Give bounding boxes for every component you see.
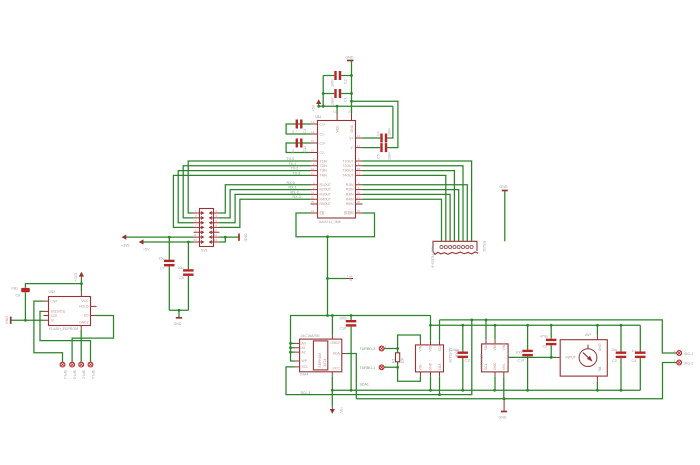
wire ADC2 VIN- to gnd [503, 376, 505, 399]
wire FB bottom [24, 292, 26, 320]
svg-text:U$2: U$2 [49, 290, 56, 294]
svg-text:T3OUT: T3OUT [342, 169, 353, 173]
svg-text:C8: C8 [179, 276, 184, 280]
junction (290.5,352.1) [289, 351, 292, 354]
svg-text:HOLD: HOLD [79, 305, 89, 309]
svg-text:14: 14 [311, 130, 315, 134]
svg-text:C4: C4 [377, 131, 381, 136]
svg-text:VCC: VCC [336, 125, 340, 133]
svg-text:100n: 100n [339, 316, 347, 320]
svg-text:T2OUT: T2OUT [342, 164, 353, 168]
svg-text:C1-: C1- [320, 132, 325, 136]
wire C2 pump loop [286, 143, 310, 153]
pins U1 stubs [311, 114, 363, 214]
svg-text:21: 21 [311, 191, 315, 195]
junction (551.2,325.3) [550, 324, 553, 327]
capacitor C7 [159, 237, 175, 310]
junction (551.2,357.4) [550, 356, 553, 359]
svg-text:AMPTE103-8: AMPTE103-8 [431, 246, 435, 268]
svg-text:15u: 15u [159, 257, 165, 261]
svg-text:INPUT: INPUT [566, 356, 576, 360]
wire meter bottom [596, 381, 598, 390]
wire VCC bottom pin [331, 376, 333, 390]
pad SPI-4 [60, 362, 67, 379]
junction (504.1,398.8) [503, 397, 506, 400]
svg-text:C1: C1 [344, 97, 348, 102]
svg-text:U$1: U$1 [315, 115, 322, 119]
svg-text:C14: C14 [518, 358, 525, 362]
node TURBO-1 pad [360, 363, 388, 370]
svg-text:GND: GND [500, 185, 508, 189]
supply +5V arrow (MAX211) [312, 99, 322, 111]
svg-text:12: 12 [357, 134, 361, 138]
wire line2 SCL-1 [286, 320, 472, 395]
junction (430.5,390.3) [429, 389, 432, 392]
wire SV1 GND [220, 236, 239, 238]
wire ADC1 SDA bottom [439, 376, 441, 394]
svg-text:T4OUT: T4OUT [342, 174, 353, 178]
svg-text:VCC: VCC [333, 366, 341, 370]
wire GND2 top pin [331, 316, 333, 335]
svg-text:+3V3: +3V3 [121, 244, 130, 248]
pad SPI-3 [70, 362, 77, 379]
svg-text:GND: GND [5, 316, 9, 324]
svg-text:V-: V- [350, 146, 353, 150]
svg-text:SHDN: SHDN [344, 211, 354, 215]
svg-text:R4IN: R4IN [346, 197, 354, 201]
svg-text:24A4: 24A4 [300, 373, 308, 377]
capacitor C8 [178, 242, 194, 310]
svg-text:C7: C7 [160, 267, 165, 271]
svg-text:GND: GND [244, 234, 248, 242]
junction (169.3,237.1) [168, 236, 171, 239]
junction (430.5,325.3) [429, 324, 432, 327]
svg-text:GND: GND [428, 362, 432, 370]
wire +3V3 net [124, 236, 193, 238]
junction (323.2,93.5) [322, 92, 325, 95]
svg-text:AV+: AV+ [585, 333, 592, 337]
pins U$4 stubs [295, 335, 347, 377]
wire +3V3 to VCC [80, 279, 82, 292]
wire RX-3 [220, 199, 311, 227]
svg-text:C9: C9 [543, 345, 548, 349]
junction (351.1,315.5) [350, 314, 353, 317]
junction (439.5,394.6) [438, 393, 441, 396]
wire ADC2 SDA top [485, 320, 487, 339]
junction (337.1,106.2) [336, 105, 339, 108]
svg-text:GND: GND [597, 344, 601, 352]
wire ADC2 VDD top [494, 325, 496, 339]
svg-text:C11: C11 [465, 359, 471, 363]
node TX labels [287, 157, 301, 199]
svg-text:C2-: C2- [320, 151, 325, 155]
svg-text:10: 10 [311, 167, 315, 171]
svg-text:SPI-1: SPI-1 [91, 370, 95, 379]
svg-text:R4OUT: R4OUT [320, 197, 332, 201]
svg-text:470p: 470p [540, 335, 548, 339]
wire TX-3 [173, 175, 310, 227]
svg-text:10: 10 [214, 228, 218, 232]
svg-text:SI: SI [51, 319, 54, 323]
svg-text:SDA1: SDA1 [360, 383, 369, 387]
wire R3IN [363, 194, 451, 241]
svg-text:VDD: VDD [428, 344, 432, 352]
svg-text:VDD: VDD [493, 343, 497, 351]
junction (188.4,242) [187, 241, 190, 244]
wire R2IN [363, 190, 459, 242]
svg-text:SIG-2: SIG-2 [684, 361, 693, 365]
svg-text:FB1: FB1 [12, 287, 19, 291]
junction (290.5,347.7) [289, 346, 292, 349]
wire SO(right) to pad [72, 316, 113, 362]
wire FB top [25, 284, 81, 288]
svg-text:C5: C5 [377, 154, 381, 159]
wire T3OUT [363, 171, 455, 242]
IC U$6 ADS1100 body [479, 343, 508, 372]
wire line3 gnd net [356, 363, 676, 399]
wire T4OUT [363, 175, 446, 241]
svg-text:11: 11 [194, 233, 197, 237]
svg-text:100n: 100n [516, 350, 524, 354]
junction (81.4,283.6) [80, 282, 83, 285]
junction (225.3,237.1) [224, 236, 227, 239]
junction (486,319.9) [485, 319, 488, 322]
wire C4 loop [387, 106, 393, 138]
svg-text:VCC: VCC [81, 299, 89, 303]
svg-text:VIN+: VIN+ [502, 343, 506, 351]
supply +5V arrow (left) [139, 239, 150, 251]
node C2 right junction [350, 74, 353, 77]
svg-text:C2: C2 [344, 79, 348, 84]
wire SO to pad [40, 311, 91, 362]
svg-text:CS#: CS# [51, 299, 58, 303]
ground GND (right of SV1) [239, 234, 248, 242]
wire TX-0 [188, 161, 310, 213]
wire ADC2 GND bottom [494, 376, 496, 390]
junction (179,310.3) [178, 309, 181, 312]
capacitor C3 [611, 325, 626, 390]
svg-text:SO(SIO1): SO(SIO1) [51, 310, 66, 314]
svg-text:25: 25 [311, 200, 315, 204]
wire rail B [440, 320, 677, 353]
svg-text:GND: GND [174, 322, 182, 326]
pad SPI-1 [88, 362, 95, 379]
wire TX-2 [178, 171, 310, 223]
connector X1 RS232 cable [431, 241, 487, 268]
wire SDA pin to line3 [346, 354, 356, 399]
svg-text:100n: 100n [388, 128, 392, 136]
wire VIN+ input [508, 356, 556, 358]
svg-text:C3: C3 [612, 359, 617, 363]
svg-text:26: 26 [357, 191, 361, 195]
wire T1OUT [363, 161, 472, 241]
svg-text:10u: 10u [178, 266, 184, 270]
svg-text:GND: GND [499, 416, 507, 420]
wire RX-1 [220, 190, 311, 218]
svg-text:C12: C12 [303, 146, 307, 153]
junction (397.6,348.5) [396, 347, 399, 350]
svg-text:20: 20 [348, 110, 352, 114]
svg-text:WP: WP [302, 359, 308, 363]
wire TX-1 [183, 166, 310, 218]
wire C5 loop [352, 101, 398, 147]
ground GND (top supply) [346, 56, 354, 61]
ground GND (floating label right) [500, 185, 508, 241]
junction (527.6,390.3) [526, 389, 529, 392]
wire RX-0 [220, 185, 311, 213]
svg-text:ADS1100: ADS1100 [479, 354, 483, 369]
svg-text:T2IN: T2IN [320, 164, 328, 168]
svg-text:SCL: SCL [484, 363, 488, 370]
junction (471.8,319.9) [470, 319, 473, 322]
wire rail A [291, 316, 431, 362]
wire GND2 to pad [80, 330, 82, 362]
capacitor C1 [323, 89, 351, 105]
junction (332.3,390.3) [331, 389, 334, 392]
wire R1IN [363, 185, 468, 242]
wire ADC1 VDD [430, 316, 432, 341]
IC U$2 FLASH_EEPROM body [49, 290, 91, 331]
junction (621,390.3) [620, 389, 623, 392]
wire VCC pin drop [336, 106, 338, 113]
capacitor C9 470p [540, 325, 556, 357]
svg-text:A1: A1 [302, 346, 306, 350]
svg-text:11: 11 [311, 172, 314, 176]
svg-text:27: 27 [357, 195, 361, 199]
svg-text:GND2: GND2 [330, 341, 340, 345]
svg-text:22: 22 [311, 195, 315, 199]
svg-text:V+: V+ [349, 136, 353, 140]
svg-text:SPI-3: SPI-3 [73, 370, 77, 379]
ground GND (bottom) [499, 399, 508, 420]
svg-text:R1: R1 [392, 358, 396, 363]
node SIG-1 pad [674, 349, 693, 356]
svg-text:10k: 10k [401, 358, 405, 364]
svg-text:TURBO-2: TURBO-2 [360, 347, 376, 351]
junction (290.5,343.4) [289, 342, 292, 345]
junction (25.4,320.3) [24, 319, 27, 322]
svg-text:SV1: SV1 [201, 249, 208, 253]
svg-text:R1IN: R1IN [346, 183, 354, 187]
svg-text:TURBO-1: TURBO-1 [360, 366, 376, 370]
wire TURBO-2 net [384, 335, 420, 349]
capacitor C3 (C1+/C1-) [291, 120, 307, 135]
svg-text:R5IN: R5IN [346, 202, 354, 206]
svg-text:1u: 1u [632, 349, 636, 353]
svg-text:12: 12 [214, 233, 218, 237]
svg-text:R2IN: R2IN [346, 188, 354, 192]
supply +5V arrow (down) [330, 390, 343, 414]
svg-text:GND2: GND2 [79, 321, 89, 325]
svg-text:SCL-1: SCL-1 [301, 391, 311, 395]
svg-text:R2OUT: R2OUT [320, 188, 332, 192]
svg-text:24: 24 [311, 209, 315, 213]
wire rail C [431, 324, 641, 326]
junction (332.4,315.5) [331, 314, 334, 317]
svg-text:SIG-1: SIG-1 [684, 352, 693, 356]
capacitor C11 [451, 325, 471, 390]
svg-text:SDA: SDA [438, 363, 442, 371]
junction (597.4,325.3) [596, 324, 599, 327]
junction (597.4,390.3) [596, 389, 599, 392]
svg-text:+3V3: +3V3 [74, 273, 78, 282]
svg-text:EEPROM: EEPROM [318, 353, 322, 368]
op-amp U1 MAX211 IC body [315, 115, 356, 224]
svg-text:13: 13 [311, 120, 315, 124]
pad SPI-2 [79, 362, 86, 379]
node TURBO-2 pad [360, 345, 388, 352]
IC U$5 ADS1100 body [416, 344, 459, 372]
node C5 loop junction [350, 100, 353, 103]
ground GND (flash left) [5, 316, 11, 324]
wire EN/SHDN tie [296, 213, 375, 237]
resistor R1 [392, 349, 405, 368]
svg-text:SPI-4: SPI-4 [63, 370, 67, 379]
wire +5V net [142, 241, 194, 243]
capacitor C14 [516, 325, 533, 390]
svg-text:FLASH_EEPROM: FLASH_EEPROM [49, 327, 78, 331]
svg-text:17: 17 [357, 144, 361, 148]
svg-text:RE: RE [597, 367, 601, 372]
junction (494.6,390.3) [493, 389, 496, 392]
svg-text:A2: A2 [302, 350, 306, 354]
svg-text:SDA: SDA [333, 352, 341, 356]
svg-text:EN: EN [320, 211, 325, 215]
svg-text:C3: C3 [303, 129, 307, 134]
junction (462.8,390.3) [461, 389, 464, 392]
svg-text:C10: C10 [340, 326, 347, 330]
svg-text:SPI-2: SPI-2 [82, 370, 86, 379]
svg-text:+5V: +5V [143, 248, 150, 252]
wire RX-2 [220, 194, 311, 222]
svg-text:GND: GND [493, 362, 497, 370]
svg-text:SCL: SCL [302, 365, 309, 369]
capacitor C5 [363, 143, 392, 160]
ground GND (below C7/C8) [174, 318, 183, 326]
svg-text:1u: 1u [291, 131, 295, 135]
node JP junction [326, 277, 329, 280]
wire cap chain left vertical [322, 76, 324, 107]
IC U$4 24C16 body [300, 334, 342, 377]
pins U$2 stubs [44, 292, 97, 330]
pins M1 stubs [596, 335, 598, 382]
svg-text:GND: GND [346, 56, 354, 60]
pins SV1 [194, 209, 220, 243]
svg-text:13: 13 [194, 238, 198, 242]
svg-text:R1OUT: R1OUT [320, 183, 332, 187]
svg-text:+5V: +5V [312, 104, 316, 111]
svg-text:VIN+: VIN+ [419, 344, 423, 352]
svg-text:18: 18 [357, 167, 361, 171]
meter M1 body [556, 333, 607, 386]
svg-text:R3IN: R3IN [346, 193, 354, 197]
svg-text:MAX211_JM6: MAX211_JM6 [319, 220, 341, 224]
svg-text:23: 23 [357, 209, 361, 213]
wire line1 SDA-1 [332, 389, 640, 391]
wire meter top [596, 325, 598, 334]
svg-text:R3OUT: R3OUT [320, 193, 332, 197]
pins U$5 stubs [420, 340, 439, 376]
svg-text:100n: 100n [331, 97, 335, 105]
wire R4IN [363, 199, 442, 241]
svg-text:19: 19 [357, 172, 361, 176]
svg-text:T1OUT: T1OUT [342, 159, 353, 163]
svg-text:JP1: JP1 [349, 275, 353, 281]
svg-text:C1+: C1+ [320, 122, 326, 126]
svg-text:10n: 10n [611, 348, 617, 352]
junction (527.6,325.3) [526, 324, 529, 327]
node C1 right junction [350, 92, 353, 95]
connector SV1 body [200, 209, 214, 253]
wire GND vertical [351, 61, 353, 114]
svg-text:VIN-: VIN- [419, 364, 423, 371]
inductor FB1 [12, 287, 30, 298]
junction (621,325.3) [620, 324, 623, 327]
svg-text:14: 14 [214, 238, 218, 242]
wire CS# to pad SPI-4 [34, 301, 63, 362]
svg-text:SO: SO [84, 314, 89, 318]
junction (323.2,106.2) [322, 105, 325, 108]
wire C1 pump loop [286, 124, 310, 134]
svg-text:100n: 100n [331, 79, 335, 87]
node EN junction [326, 235, 329, 238]
svg-text:SCL: SCL [438, 345, 442, 352]
wire TURBO-1 net [384, 367, 420, 381]
svg-text:100n: 100n [388, 152, 392, 160]
wire +5V rail [319, 105, 393, 107]
junction (495,325.3) [494, 324, 497, 327]
svg-text:+5V: +5V [339, 407, 343, 414]
wire ADC1 GND bottom [430, 376, 432, 390]
node SIG-2 pad [674, 359, 693, 366]
svg-text:R5OUT: R5OUT [320, 202, 332, 206]
svg-text:RS232: RS232 [482, 241, 486, 252]
junction (462.8,325.3) [461, 324, 464, 327]
junction (351.1,390.3) [350, 389, 353, 392]
pins U$6 stubs [486, 339, 504, 376]
svg-text:C4: C4 [632, 359, 637, 363]
junction (327.5,315.5) [326, 314, 329, 317]
capacitor C2 [323, 71, 351, 87]
svg-text:T3IN: T3IN [320, 169, 328, 173]
supply +3V3 arrow (flash) [74, 272, 84, 282]
svg-text:15: 15 [311, 149, 315, 153]
supply +3V3 arrow (left) [121, 235, 130, 248]
junction (318.7,106.2) [317, 105, 320, 108]
capacitor C12 (C2+/C2-) [291, 139, 307, 154]
svg-text:SDA: SDA [484, 343, 488, 351]
svg-text:C2+: C2+ [320, 141, 326, 145]
svg-text:VIN-: VIN- [502, 363, 506, 370]
wire cap gnd join [169, 310, 188, 317]
wire addr pins [291, 343, 295, 352]
capacitor C4b [632, 325, 646, 390]
svg-text:T4IN: T4IN [320, 174, 328, 178]
svg-text:C6: C6 [16, 294, 21, 298]
capacitor C10 [339, 316, 356, 391]
svg-text:28: 28 [357, 200, 361, 204]
svg-text:AT24: AT24 [323, 359, 327, 367]
svg-text:11: 11 [333, 110, 336, 114]
svg-text:-: - [593, 382, 594, 386]
junction (397.6,367.3) [396, 366, 399, 369]
wire ADC1 SCL top [439, 320, 441, 340]
svg-text:100n: 100n [451, 348, 459, 352]
wire EN net drop [327, 237, 329, 316]
svg-text:GND: GND [350, 124, 354, 132]
pin numbers U1 [311, 110, 361, 214]
svg-text:T1IN: T1IN [320, 159, 328, 163]
